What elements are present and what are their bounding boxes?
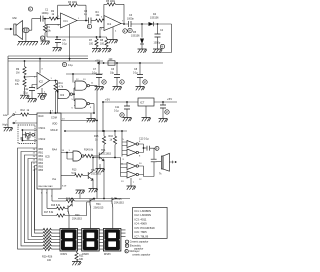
svg-text:+9V: +9V [95,59,100,63]
svg-text:1000p: 1000p [127,18,134,21]
svg-text:RB4: RB4 [39,163,44,165]
svg-text:VDD: VDD [52,123,57,126]
svg-text:MCLR: MCLR [51,129,58,132]
svg-text:Ceramic capacitor: Ceramic capacitor [130,241,149,244]
svg-text:M: M [166,111,168,114]
svg-text:High: High [3,124,9,127]
svg-text:1SS106: 1SS106 [150,17,159,20]
svg-text:IC1: IC1 [107,22,112,26]
svg-text:OSC1: OSC1 [39,127,46,130]
svg-text:1000p: 1000p [154,42,161,45]
svg-text:0.1µ: 0.1µ [62,43,67,46]
svg-text:2SA1015: 2SA1015 [72,218,83,221]
svg-text:Electrolytic: Electrolytic [130,245,142,248]
svg-text:M: M [129,30,131,33]
svg-text:IC2: IC2 [39,80,44,84]
svg-text:100: 100 [47,259,52,262]
svg-text:Mic: Mic [13,16,18,20]
svg-text:DISP1: DISP1 [61,254,68,256]
svg-text:RB2: RB2 [39,156,44,158]
svg-text:M: M [161,46,163,49]
svg-text:OSC2: OSC2 [39,138,46,141]
svg-text:1M: 1M [16,72,19,75]
svg-text:+5V: +5V [167,97,172,101]
svg-text:+5V: +5V [105,98,110,102]
svg-text:IC3: IC3 [60,93,65,97]
svg-text:RB3: RB3 [39,160,44,162]
svg-text:5.6k: 5.6k [89,149,94,152]
svg-text:2SC1815: 2SC1815 [101,153,112,156]
svg-text:R3 100k: R3 100k [68,1,78,4]
svg-text:R16 5.6k: R16 5.6k [51,205,61,207]
svg-text:330: 330 [79,258,84,261]
svg-text:0.1µ: 0.1µ [114,110,119,113]
svg-text:IC7: 78L09: IC7: 78L09 [135,234,149,238]
svg-text:10µ: 10µ [110,72,115,75]
svg-text:RA0: RA0 [39,115,44,118]
svg-text:RB6: RB6 [39,170,44,172]
svg-text:RA1 RA2 RA3: RA1 RA2 RA3 [39,185,54,188]
svg-text:Mult.layer: Mult.layer [130,250,140,253]
svg-text:IC7: IC7 [140,101,145,105]
svg-text:0.1µ: 0.1µ [23,92,28,95]
svg-text:COM: COM [51,117,57,120]
svg-text:M: M [125,251,127,253]
svg-text:Low: Low [3,114,8,117]
svg-text:1SS106: 1SS106 [131,35,140,38]
svg-text:1000p: 1000p [42,12,50,15]
svg-text:100: 100 [89,43,94,46]
svg-text:0.1µ: 0.1µ [144,138,149,141]
svg-text:4.7k: 4.7k [59,86,64,89]
svg-text:R12: R12 [21,109,26,112]
svg-text:RB5: RB5 [39,167,44,169]
svg-text:RB0: RB0 [39,149,44,151]
svg-text:R17 5.6k: R17 5.6k [44,212,54,214]
svg-text:M: M [63,65,65,67]
svg-text:M: M [103,81,105,84]
svg-text:RB1: RB1 [39,153,44,155]
svg-text:R18: R18 [66,199,71,201]
svg-text:2SC1815: 2SC1815 [91,173,102,176]
svg-text:IC1: IC1 [64,19,69,23]
svg-text:M: M [121,114,123,117]
svg-text:ceramic capacitor: ceramic capacitor [132,254,150,257]
svg-text:0.1µ: 0.1µ [133,72,138,75]
svg-text:R5 100k: R5 100k [106,0,116,3]
svg-text:DISP3: DISP3 [104,254,111,256]
svg-text:2SA1015: 2SA1015 [114,202,125,205]
svg-text:M: M [144,81,146,84]
svg-text:5.6k: 5.6k [72,172,77,175]
svg-text:0.1µ: 0.1µ [68,64,73,67]
svg-text:RA4: RA4 [52,149,57,152]
svg-text:IC5: IC5 [45,155,50,159]
svg-text:capacitor: capacitor [134,248,144,251]
svg-text:100: 100 [100,43,105,46]
svg-text:2SA1015: 2SA1015 [94,207,105,210]
